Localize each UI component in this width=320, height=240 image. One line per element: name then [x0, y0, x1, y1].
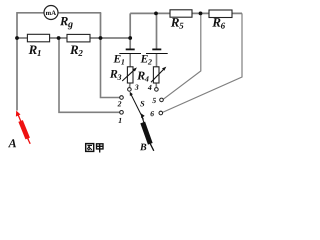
wire drop from corner to mid rail [100, 13, 102, 38]
wire to node 1 [59, 38, 120, 112]
wire to node 6 from R6 right [162, 13, 242, 112]
label R3 [110, 70, 122, 80]
battery E1 [119, 49, 141, 53]
rheostat R3 [122, 67, 137, 83]
wire R3 to node 3 [129, 83, 132, 88]
wire E1 riser [129, 13, 131, 49]
label R1 [29, 45, 41, 56]
node 1 [120, 111, 124, 115]
switch S blade [130, 92, 144, 120]
junction at E2 drop [154, 12, 158, 16]
battery E2 [146, 49, 168, 53]
junction between R1 and R2 [57, 36, 61, 40]
junction at E1 riser [128, 36, 132, 40]
wire mA to top-right corner [58, 12, 101, 14]
label 5 [152, 98, 156, 103]
probe B [141, 113, 154, 151]
label R2 [70, 45, 83, 56]
label R4 [137, 72, 148, 82]
probe A [16, 111, 30, 144]
node 2 [120, 96, 124, 100]
label 4 [148, 85, 152, 90]
label E1 [113, 55, 124, 65]
label 2 [118, 101, 122, 106]
node 5 [160, 98, 164, 102]
label A [8, 139, 16, 147]
label 1 [118, 118, 121, 123]
wire to node 2 [101, 38, 120, 98]
milliammeter mA [44, 6, 58, 20]
wire mid rail [17, 37, 130, 39]
label 3 [135, 85, 139, 90]
resistor R6 [209, 10, 232, 18]
wire top-left horizontal to mA [17, 12, 45, 14]
node 4 [155, 88, 159, 92]
caption tu jia [86, 144, 103, 153]
wire to node 5 from R5-R6 junction [163, 13, 201, 99]
wire E2 battery to R4 [156, 54, 158, 68]
label R5 [171, 18, 184, 29]
label E2 [141, 55, 152, 65]
junction right of R2 [99, 36, 103, 40]
label S [140, 101, 144, 107]
wire left rail vertical [16, 12, 18, 110]
label Rg [60, 17, 73, 29]
resistor R5 [170, 10, 192, 17]
label R6 [212, 18, 225, 29]
junction between R5 and R6 [199, 12, 203, 16]
resistor R1 [27, 34, 49, 42]
wire R4 to node 4 [155, 83, 157, 88]
wire E2 drop [156, 13, 158, 49]
wire E1 battery to R3 [129, 54, 131, 68]
rheostat R4 [151, 67, 166, 83]
node 3 [128, 88, 132, 92]
junction left rail / mid rail [15, 36, 19, 40]
label 6 [150, 111, 154, 116]
wire top rail [130, 12, 242, 14]
node 6 [159, 111, 163, 115]
resistor R2 [67, 34, 90, 42]
label B [140, 144, 146, 151]
